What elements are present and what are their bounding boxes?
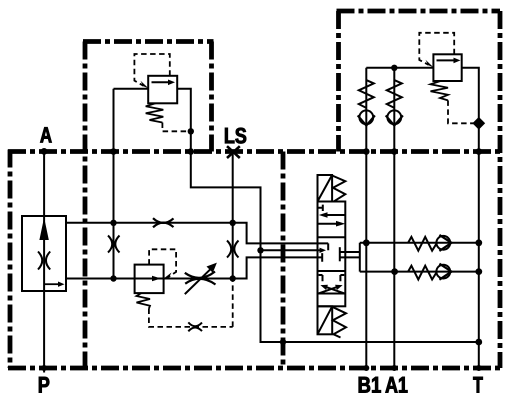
wire upper line from compensator to valve <box>66 223 318 244</box>
wire top-right relief outlet / T vertical <box>462 68 479 368</box>
solenoid S1 box <box>318 175 333 202</box>
relief valve RV1 pilot arrow head <box>141 81 149 89</box>
node A1 crosses boundary <box>391 148 398 155</box>
check valve CV2 seat <box>386 115 403 125</box>
boundary: bottom edge <box>8 366 500 371</box>
valve DV1 divider arrow y=223.7 <box>318 223 339 225</box>
shock valve SV1 spring <box>408 237 437 251</box>
valve DV1 body <box>318 202 346 307</box>
relief valve RV2 pilot dashed loop <box>149 249 176 277</box>
wire A1 vertical <box>393 68 395 368</box>
node T crosses boundary <box>476 148 483 155</box>
label port P <box>39 377 49 393</box>
node B1 crosses boundary <box>363 148 370 155</box>
boundary: right edge <box>498 11 503 368</box>
LS port plug X <box>227 146 240 158</box>
relief valve RV2 body <box>135 265 164 294</box>
node T shock line 2 <box>475 268 482 275</box>
node A1 at bottom boundary <box>391 365 397 371</box>
pinch orifice O2 on x=113.5 <box>108 236 120 253</box>
check valve CV1 ball <box>359 110 373 124</box>
variable orifice VO1 arcs <box>185 272 216 285</box>
relief valve RV2 pilot arrow head <box>164 273 172 279</box>
node valve P branch <box>257 247 263 253</box>
node upper line x=113.5 <box>110 220 116 226</box>
node T shock line 1 <box>475 239 482 246</box>
node A1 shock line <box>391 268 398 275</box>
flow regulator FR1 side arrow <box>44 283 58 285</box>
flow regulator FR1 pinch orifice <box>38 252 50 270</box>
boundary: top-right box left edge <box>336 11 341 152</box>
relief valve RV3 drain dashed <box>448 100 479 123</box>
node B1 at bottom boundary <box>363 365 369 371</box>
label port B1 <box>359 377 381 393</box>
solenoid S1 return spring <box>332 176 345 202</box>
wire valve right ports to B1/A1 lines <box>345 243 360 272</box>
boundary: main horizontal divider y=151.5 <box>8 149 500 154</box>
flow regulator FR1 up-arrow <box>40 220 48 240</box>
node T drain diamond <box>472 117 485 130</box>
label port A <box>40 127 51 142</box>
boundary: inner vertical x=85 <box>83 42 88 369</box>
node x=113.5 crosses boundary <box>110 148 117 155</box>
node x=190.5 crosses boundary <box>188 148 195 155</box>
check valve CV1 spring <box>359 80 374 108</box>
wire B1 vertical <box>365 68 367 368</box>
label port A1 <box>386 377 408 393</box>
solenoid S2 return spring <box>332 307 346 338</box>
valve DV1 block1 left arrow <box>326 214 345 216</box>
shock valve SV1 ball <box>436 236 450 250</box>
solenoid S2 box <box>318 306 333 334</box>
wire LS vertical <box>232 153 234 279</box>
node P at bottom boundary <box>41 365 47 371</box>
pinch orifice O3 on LS vertical <box>227 241 239 258</box>
node A on boundary <box>41 148 48 155</box>
valve DV1 cross block stubs <box>319 275 345 281</box>
relief valve RV2 spring <box>137 293 151 309</box>
shock valve SV2 ball <box>436 265 450 279</box>
relief valve RV3 pilot arrow head <box>426 60 434 68</box>
wire top-right relief inlet <box>366 67 433 69</box>
node gallery crosses boundary <box>280 339 286 345</box>
shock valve SV2 spring <box>408 266 437 280</box>
wire shock line A1 to T <box>360 271 479 273</box>
boundary: top-left box top edge <box>83 39 214 44</box>
wire vertical from top relief valve left side <box>113 89 115 279</box>
shock valve SV2 seat <box>439 264 451 280</box>
relief valve RV2 arrow head <box>152 276 161 282</box>
node T at bottom boundary <box>476 365 482 371</box>
relief valve RV3 spring <box>431 81 449 100</box>
node B1 shock line <box>363 239 370 246</box>
relief valve RV1 spring <box>146 103 164 122</box>
relief valve RV3 arrow head <box>454 58 461 64</box>
node LS vertical upper <box>230 220 236 226</box>
wire top relief valve outlet to LS gallery <box>177 89 479 342</box>
wire shock line B1 to T <box>360 242 479 244</box>
relief valve RV3 pilot dashed loop <box>419 33 454 65</box>
shock valve SV1 seat <box>439 235 451 251</box>
fixed orifice O1 on upper line <box>153 218 174 227</box>
wire valve P port middle line <box>261 249 318 251</box>
valve DV1 block1 blocked port <box>318 205 323 211</box>
node A1 top <box>391 65 397 71</box>
valve DV1 crossed arrows <box>318 286 345 293</box>
check valve CV2 spring <box>387 80 402 108</box>
check valve CV2 ball <box>387 110 401 124</box>
valve DV1 center block arrow head <box>320 248 327 253</box>
relief valve RV2 drain dashed with orifice <box>149 279 233 327</box>
node lower line x=232.7 <box>230 275 236 281</box>
node T bottom gallery <box>475 339 482 346</box>
boundary: bottom-right box left edge <box>281 152 286 369</box>
relief valve RV1 body <box>148 76 177 104</box>
flow regulator FR1 body <box>22 216 66 291</box>
relief valve RV1 drain dashed <box>162 123 190 132</box>
relief valve RV1 arrow head <box>168 80 175 86</box>
check valve CV1 seat <box>358 115 375 125</box>
wire lower line from compensator to valve <box>66 257 318 278</box>
label port LS <box>225 128 246 144</box>
variable orifice VO1 arrow <box>185 267 213 294</box>
boundary: top-left box right edge <box>209 42 214 152</box>
fixed orifice O4 on drain dashed <box>188 322 202 331</box>
valve DV1 center block paths <box>318 243 346 261</box>
wire port A vertical down to P <box>43 151 45 372</box>
relief valve RV3 body <box>433 54 461 81</box>
wire top relief valve inlet <box>114 88 149 90</box>
relief valve RV1 pilot dashed loop <box>134 54 169 86</box>
node lower line x=113.5 <box>110 275 116 281</box>
boundary: top-right box top edge <box>337 9 501 14</box>
node top relief drain <box>188 128 194 134</box>
label port T <box>473 377 482 393</box>
boundary: left edge <box>8 150 13 369</box>
